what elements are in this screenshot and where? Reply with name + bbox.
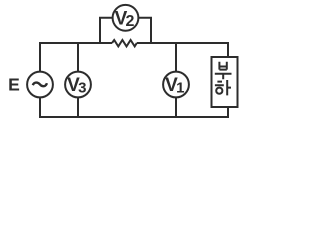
svg-text:E: E <box>8 75 20 95</box>
wire V3 branch upper <box>77 43 79 72</box>
wire top right segment + load stub upper <box>137 43 228 57</box>
wire V3 branch lower <box>77 97 79 117</box>
voltmeter V3 circle <box>65 72 91 98</box>
wire V1 branch lower <box>175 97 177 117</box>
svg-text:1: 1 <box>176 80 184 97</box>
voltmeter V1 circle <box>163 72 189 98</box>
wire top left + E branch upper corner <box>40 43 112 72</box>
AC source sine symbol <box>33 83 47 87</box>
wire V1 branch upper <box>175 43 177 72</box>
wire V2 branch left <box>100 18 113 43</box>
load label glyph 하 <box>215 80 231 95</box>
voltmeter V2 label <box>115 9 135 30</box>
voltmeter V3 label <box>67 75 86 97</box>
load box <box>212 57 238 107</box>
svg-text:2: 2 <box>125 13 134 30</box>
voltmeter V2 circle <box>113 5 139 31</box>
label E <box>8 75 20 95</box>
AC source E circle <box>27 72 53 98</box>
load label glyph 부 <box>215 62 232 79</box>
voltmeter V1 label <box>165 75 184 97</box>
wire V2 branch right <box>138 18 151 43</box>
resistor (series element on top wire) <box>112 40 137 46</box>
svg-text:3: 3 <box>78 80 86 97</box>
wire bottom + corners (E lower, load stub lower) <box>40 97 228 117</box>
